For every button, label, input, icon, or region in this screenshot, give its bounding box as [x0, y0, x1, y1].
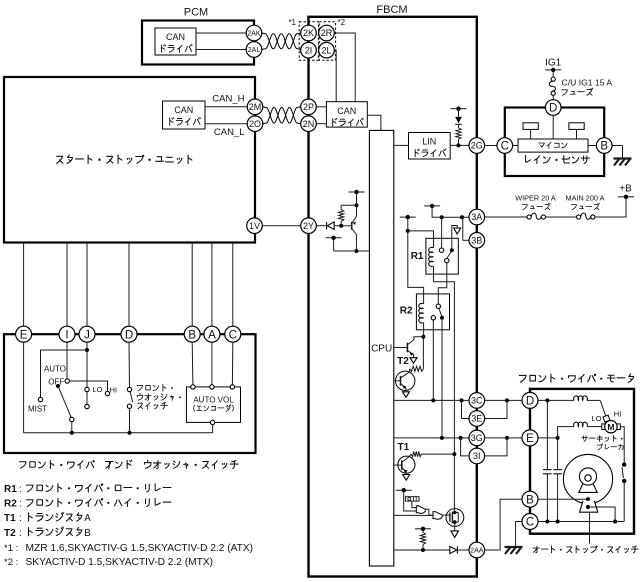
svg-text:LIN: LIN [422, 137, 436, 147]
svg-text:MIST: MIST [28, 405, 47, 414]
svg-text:T1: T1 [4, 513, 16, 524]
svg-text:2AA: 2AA [470, 548, 484, 555]
svg-text::: : [19, 513, 22, 524]
svg-text:2M: 2M [249, 102, 262, 112]
svg-text:M: M [607, 422, 614, 432]
svg-text:A: A [84, 513, 91, 524]
svg-text:I: I [65, 329, 68, 341]
svg-text:C: C [501, 141, 509, 153]
svg-text:R1: R1 [411, 251, 424, 262]
svg-text:2G: 2G [471, 141, 483, 151]
svg-text:2O: 2O [249, 119, 261, 129]
svg-text:2N: 2N [303, 119, 315, 129]
svg-text:*1 :: *1 : [4, 543, 18, 554]
svg-text:D: D [526, 396, 534, 408]
svg-text:B: B [600, 141, 608, 153]
svg-text:R2: R2 [4, 499, 17, 510]
svg-text:T2: T2 [4, 528, 16, 539]
svg-text:E: E [20, 329, 28, 341]
svg-text:AUTO VOL: AUTO VOL [193, 396, 234, 405]
svg-text:2I: 2I [305, 45, 313, 55]
svg-text::: : [19, 528, 22, 539]
svg-text:2AK: 2AK [247, 31, 261, 38]
svg-text::: : [19, 499, 22, 510]
svg-text:2AL: 2AL [248, 47, 261, 54]
svg-text:R2: R2 [400, 306, 413, 317]
svg-text:2Y: 2Y [303, 221, 314, 231]
svg-text::: : [19, 484, 22, 495]
svg-text:2K: 2K [303, 28, 314, 38]
svg-text:C/U IG1 15 A: C/U IG1 15 A [562, 78, 613, 88]
svg-text:CPU: CPU [371, 343, 392, 354]
svg-text:PCM: PCM [184, 7, 208, 19]
svg-text:+B: +B [619, 183, 632, 194]
svg-text:CAN: CAN [174, 105, 193, 115]
svg-text:SKYACTIV-D 1.5,SKYACTIV-D 2.2: SKYACTIV-D 1.5,SKYACTIV-D 2.2 (MTX) [26, 557, 214, 568]
svg-text:3C: 3C [471, 396, 483, 406]
svg-text:IG1: IG1 [545, 58, 562, 69]
svg-text:3A: 3A [471, 212, 482, 222]
svg-text:HI: HI [110, 386, 118, 395]
svg-text:T2: T2 [397, 356, 409, 367]
svg-text:MZR 1.6,SKYACTIV-G 1.5,SKYACTI: MZR 1.6,SKYACTIV-G 1.5,SKYACTIV-D 2.2 (A… [26, 543, 254, 554]
svg-text:*2: *2 [338, 18, 346, 27]
svg-text:LO: LO [591, 414, 601, 423]
svg-text:2P: 2P [303, 102, 314, 112]
svg-text:B: B [84, 528, 91, 539]
svg-text:B: B [526, 494, 534, 506]
svg-text:D: D [549, 103, 557, 115]
svg-text:C: C [526, 517, 534, 529]
svg-text:WIPER 20 A: WIPER 20 A [515, 194, 556, 203]
svg-text:AUTO: AUTO [44, 365, 66, 374]
svg-text:3E: 3E [471, 414, 482, 424]
svg-text:R1: R1 [4, 484, 17, 495]
svg-text:CAN: CAN [166, 32, 185, 42]
svg-text:MAIN 200 A: MAIN 200 A [566, 194, 605, 203]
svg-text:2L: 2L [321, 45, 331, 55]
svg-text:C: C [229, 329, 237, 341]
svg-text:LO: LO [92, 385, 102, 394]
svg-text:FBCM: FBCM [376, 4, 407, 16]
svg-text:*1: *1 [288, 18, 296, 27]
svg-text:2R: 2R [321, 28, 333, 38]
svg-text:3B: 3B [471, 236, 482, 246]
svg-text:CAN_H: CAN_H [212, 93, 244, 104]
svg-text:A: A [208, 329, 216, 341]
svg-text:1V: 1V [249, 221, 260, 231]
svg-text:*2 :: *2 : [4, 557, 18, 568]
svg-text:D: D [125, 329, 133, 341]
svg-text:CAN: CAN [337, 106, 356, 116]
svg-text:3I: 3I [473, 451, 481, 461]
svg-text:3G: 3G [471, 433, 483, 443]
svg-text:E: E [526, 433, 534, 445]
svg-text:T1: T1 [398, 442, 410, 453]
svg-text:HI: HI [614, 409, 622, 418]
svg-text:B: B [188, 329, 196, 341]
svg-text:CAN_L: CAN_L [214, 127, 245, 138]
svg-text:J: J [84, 329, 90, 341]
